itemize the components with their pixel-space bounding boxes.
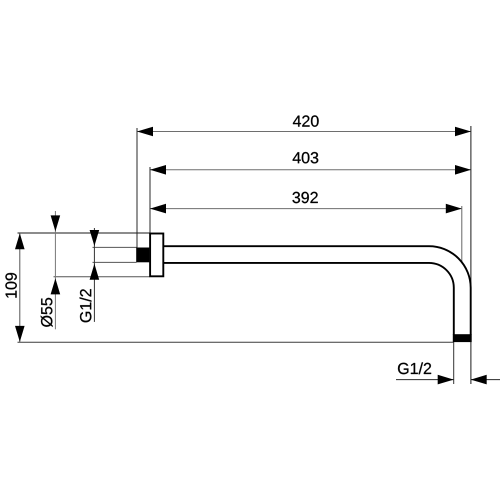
dimension 109 line — [19, 233, 21, 342]
extension line wall face x=137 — [136, 128, 138, 248]
dimension 420 left arrow — [137, 127, 153, 137]
extension line outlet left x=453.7 — [453, 342, 455, 384]
shower arm outer contour — [164, 246, 471, 335]
extension line outlet bottom horizontal y=342.2 — [18, 341, 454, 343]
dimension 420 right arrow — [455, 127, 471, 137]
dimension G1/2 outlet left line — [396, 379, 454, 381]
extension line pipe axis x=461.8 — [461, 206, 463, 262]
outlet thread band — [453, 334, 472, 342]
dimension 109 top arrow — [15, 233, 25, 249]
dimension diameter 55 bottom arrow (outside, pointing up) — [51, 278, 61, 294]
dimension 403 left arrow — [150, 165, 166, 175]
dimension 420 line — [137, 131, 471, 133]
dimension 392 line — [150, 208, 462, 210]
dimension 403 line — [150, 169, 471, 171]
wall thread (black square) — [136, 248, 149, 263]
extension line flange top horizontal y=233 — [18, 232, 150, 234]
extension line flange face x=150 — [149, 167, 151, 233]
dimension 392 text — [292, 192, 317, 203]
dimension 392 left arrow — [150, 204, 166, 214]
dimension diameter 55 text (rotated) — [41, 298, 53, 327]
dimension 420 text — [293, 115, 319, 126]
dimension 109 text (rotated) — [5, 273, 16, 298]
extension line pipe outer x=470.9 — [470, 126, 472, 384]
extension line thread bottom y=262.4 — [93, 261, 137, 263]
wall flange — [150, 234, 163, 277]
dimension G1/2 outlet right arrow (pointing left) — [471, 375, 487, 385]
dimension G1/2 wall top arrow (outside, pointing down) — [90, 230, 100, 246]
dimension 403 text — [293, 152, 319, 163]
dimension 392 right arrow — [446, 204, 462, 214]
dimension G1/2 outlet left arrow (pointing right) — [438, 375, 454, 385]
dimension G1/2 wall bottom arrow (outside, pointing up) — [90, 264, 100, 280]
dimension G1/2 wall line — [93, 228, 95, 322]
dimension G1/2 outlet text — [398, 362, 431, 374]
shower arm inner contour — [164, 263, 454, 335]
extension line thread top y=247.4 — [93, 246, 137, 248]
dimension 109 bottom arrow — [15, 326, 25, 342]
dimension diameter 55 line — [54, 211, 56, 329]
dimension G1/2 wall text (rotated) — [80, 289, 92, 322]
extension line flange bottom y=276.8 — [54, 276, 150, 278]
dimension 403 right arrow — [455, 165, 471, 175]
dimension G1/2 outlet right line — [471, 379, 500, 381]
dimension diameter 55 top arrow (outside, pointing down) — [51, 215, 61, 231]
